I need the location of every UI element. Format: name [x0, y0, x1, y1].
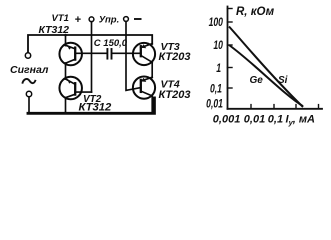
x axis [228, 108, 323, 110]
node VT1 collector junction [64, 34, 67, 37]
y tick 10 [228, 44, 233, 46]
svg-text:КТ203: КТ203 [159, 89, 191, 101]
wire top rail [28, 35, 152, 53]
y tick 0,1 [228, 87, 233, 89]
x tick 0,01 [250, 105, 252, 109]
wire capacitor to VT3 base [112, 52, 141, 54]
curve Si [229, 27, 303, 108]
label minus [134, 18, 142, 20]
svg-text:100: 100 [209, 17, 224, 30]
svg-text:С 150,0: С 150,0 [94, 38, 128, 49]
terminal signal lower [26, 91, 31, 96]
svg-text:0,01: 0,01 [206, 98, 223, 111]
y tick 100 [228, 21, 233, 23]
svg-text:КТ312: КТ312 [79, 102, 113, 114]
terminal signal upper [25, 53, 30, 58]
y tick top [228, 8, 233, 10]
label tilde [22, 79, 35, 84]
transistor VT2 [59, 77, 91, 113]
transistor VT3 [133, 43, 155, 78]
svg-text:0,001: 0,001 [213, 114, 241, 126]
svg-text:Ge: Ge [250, 75, 264, 86]
curve Ge [229, 45, 303, 106]
svg-text:+: + [75, 14, 82, 26]
svg-text:VT1: VT1 [52, 13, 69, 24]
x tick 0,1 [273, 105, 275, 109]
svg-text:Упр.: Упр. [99, 15, 119, 26]
chart axes [228, 7, 323, 109]
wire bottom rail [28, 98, 154, 113]
x tick end [318, 105, 320, 109]
svg-text:0,1: 0,1 [268, 114, 283, 126]
wire control minus vertical [126, 21, 141, 90]
wire signal lower stub [28, 97, 30, 112]
y axis [227, 7, 229, 109]
svg-text:КТ312: КТ312 [39, 24, 70, 36]
wire VT1 base to capacitor [75, 52, 106, 54]
svg-text:0,01: 0,01 [244, 114, 265, 126]
capacitor C 150,0 [107, 49, 111, 59]
svg-text:КТ203: КТ203 [159, 51, 191, 63]
y tick 1 [228, 67, 233, 69]
transistor VT1 [59, 36, 82, 79]
x tick 1 [295, 105, 297, 109]
node VT2 emitter junction [64, 112, 67, 115]
svg-text:1: 1 [216, 63, 221, 76]
svg-text:Сигнал: Сигнал [10, 64, 49, 76]
terminal control plus [89, 17, 94, 22]
svg-text:10: 10 [213, 40, 223, 53]
transistor VT4 [133, 77, 155, 113]
svg-text:R, кОм: R, кОм [236, 6, 275, 18]
wire control plus vertical [91, 22, 93, 92]
terminal control minus [124, 17, 129, 22]
svg-text:Si: Si [278, 75, 288, 86]
svg-text:0,1: 0,1 [210, 83, 222, 96]
